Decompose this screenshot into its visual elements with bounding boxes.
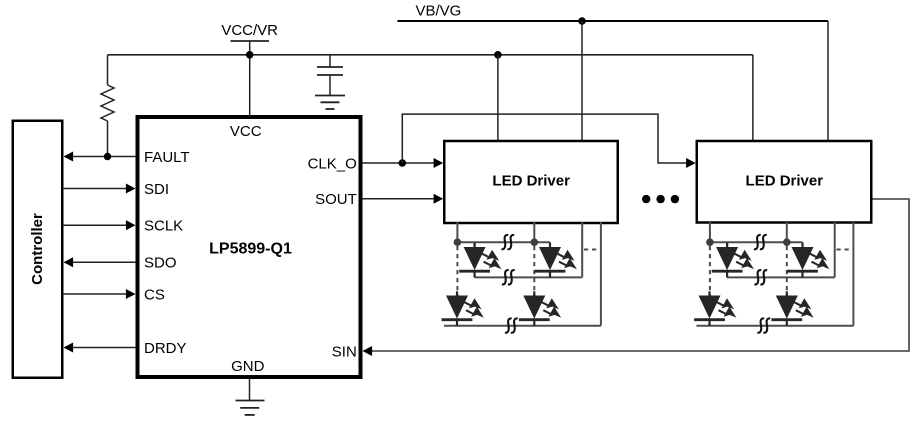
capacitor C bypass xyxy=(329,55,331,67)
wire CLK_O xyxy=(363,162,435,164)
break mark row1 cathode xyxy=(754,270,767,284)
svg-text:SDI: SDI xyxy=(144,181,169,198)
break mark row1 xyxy=(501,235,514,249)
wire CLK chain bypass to driver2 xyxy=(402,114,686,163)
wire bottom rail row2 xyxy=(697,325,854,327)
svg-text:GND: GND xyxy=(231,358,265,375)
wire column C return xyxy=(834,222,836,277)
wire bottom rail row2 xyxy=(444,325,601,327)
svg-text:VCC/VR: VCC/VR xyxy=(221,22,278,39)
wire anode rail row1 xyxy=(710,241,803,243)
LED B1 xyxy=(535,243,577,278)
wire VB/VG drop to driver2 xyxy=(827,21,829,141)
wire LED A1 anode stub xyxy=(726,242,728,247)
wire DRDY xyxy=(72,347,136,349)
wire dashed continuation B xyxy=(786,246,788,296)
wire SIN feedback xyxy=(372,199,909,351)
svg-text:SOUT: SOUT xyxy=(315,191,357,208)
wire dashed continuation A xyxy=(709,246,711,296)
LED driver 2 box xyxy=(697,141,872,223)
wire LED B1 anode stub xyxy=(802,242,804,247)
wire VCC rail xyxy=(108,54,753,56)
wire VCC drop to driver2 xyxy=(752,55,754,141)
wire SCLK xyxy=(63,224,127,226)
LED array of driver 2 xyxy=(694,222,853,333)
wire stub column A xyxy=(456,222,458,242)
wire stub column A xyxy=(709,222,711,242)
node VCC junction xyxy=(246,51,254,59)
svg-text:LED Driver: LED Driver xyxy=(746,172,824,189)
LED A2 xyxy=(694,291,736,326)
wire SDO xyxy=(72,261,136,263)
node array dot B xyxy=(783,238,791,246)
LED A1 xyxy=(712,243,754,278)
wire VCC drop to driver1 xyxy=(497,55,499,141)
ellipsis between drivers xyxy=(642,195,650,203)
LED A2 xyxy=(442,291,484,326)
wire dashed continuation B xyxy=(533,246,535,296)
wire LED B1 anode stub xyxy=(549,242,551,247)
svg-text:VB/VG: VB/VG xyxy=(416,3,462,20)
ground (IC) xyxy=(236,400,265,402)
svg-text:LP5899-Q1: LP5899-Q1 xyxy=(209,241,292,258)
wire VB/VG drop to driver1 xyxy=(581,21,583,141)
LED array of driver 1 xyxy=(442,222,601,333)
wire cathode rail row1 xyxy=(475,276,583,278)
op-amp U1 LP5899-Q1 box xyxy=(138,117,361,377)
svg-text:LED Driver: LED Driver xyxy=(492,172,570,189)
wire column D return xyxy=(600,222,602,326)
LED B2 xyxy=(771,291,813,326)
wire VB/VG rail xyxy=(398,20,829,22)
wire LED A1 anode stub xyxy=(474,242,476,247)
node VCC rail to driver1 xyxy=(494,51,502,59)
resistor R pullup xyxy=(107,55,109,85)
controller box xyxy=(13,121,63,378)
svg-text:VCC: VCC xyxy=(230,123,262,140)
break mark row1 cathode xyxy=(502,270,515,284)
break mark row1 xyxy=(754,235,767,249)
node VB/VG junction xyxy=(578,17,586,25)
break mark row2 xyxy=(505,318,518,332)
LED A1 xyxy=(459,243,501,278)
wire dashed continuation A xyxy=(456,246,458,296)
svg-text:CS: CS xyxy=(144,286,165,303)
VCC/VR supply bar xyxy=(231,40,270,42)
break mark row2 xyxy=(757,318,770,332)
LED B2 xyxy=(519,291,561,326)
node array dot A xyxy=(706,238,714,246)
LED driver 1 box xyxy=(444,141,618,223)
wire FAULT xyxy=(72,156,136,158)
wire anode rail row1 xyxy=(457,241,550,243)
svg-text:CLK_O: CLK_O xyxy=(308,155,357,172)
wire stub column B xyxy=(786,222,788,242)
node FAULT junction xyxy=(104,153,111,160)
wire CS xyxy=(63,293,127,295)
svg-text:SCLK: SCLK xyxy=(144,218,183,235)
wire cathode rail row1 xyxy=(727,276,835,278)
wire SOUT xyxy=(363,198,435,200)
wire column D return xyxy=(852,222,854,326)
wire SDI xyxy=(63,188,127,190)
wire dashed continuation right xyxy=(837,249,853,251)
svg-text:DRDY: DRDY xyxy=(144,340,187,357)
node array dot A xyxy=(454,238,462,246)
wire VCC stub to IC xyxy=(249,41,251,117)
wire GND stub xyxy=(249,379,251,401)
svg-text:Controller: Controller xyxy=(29,213,46,285)
LED B1 xyxy=(787,243,829,278)
wire stub column B xyxy=(533,222,535,242)
svg-text:FAULT: FAULT xyxy=(144,149,190,166)
node CLK_O junction xyxy=(399,159,407,167)
wire dashed continuation right xyxy=(584,249,600,251)
node array dot B xyxy=(531,238,539,246)
svg-text:SIN: SIN xyxy=(332,343,357,360)
ground (capacitor) xyxy=(315,95,345,97)
svg-text:SDO: SDO xyxy=(144,255,177,272)
wire column C return xyxy=(581,222,583,277)
